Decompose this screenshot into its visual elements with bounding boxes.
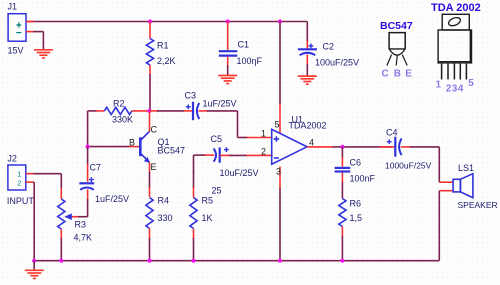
wire R2 left vertical bbox=[87, 111, 89, 147]
wire top rail bbox=[26, 21, 307, 23]
wire C5 left bbox=[204, 154, 214, 156]
svg-text:C2: C2 bbox=[323, 42, 335, 52]
wire pin4 output bbox=[307, 146, 333, 148]
svg-text:4: 4 bbox=[309, 137, 314, 147]
svg-text:BC547: BC547 bbox=[380, 20, 413, 32]
capacitor C1 bbox=[227, 22, 229, 51]
resistor R4 bbox=[146, 198, 153, 229]
node junction R1-top bbox=[148, 19, 152, 23]
svg-text:100ηF: 100ηF bbox=[237, 56, 263, 66]
svg-text:1uF/25V: 1uF/25V bbox=[95, 194, 129, 204]
BC547 package body bbox=[389, 33, 405, 49]
resistor R6 bbox=[339, 199, 346, 227]
svg-text:J2: J2 bbox=[7, 154, 17, 164]
svg-text:B: B bbox=[394, 68, 401, 79]
wire collector to C3 bbox=[150, 110, 159, 112]
capacitor C6 bbox=[341, 147, 343, 158]
svg-text:SPEAKER: SPEAKER bbox=[458, 200, 498, 210]
svg-text:R3: R3 bbox=[75, 220, 87, 230]
ground (C2) bbox=[298, 75, 317, 77]
TDA2002 tab bbox=[442, 14, 469, 30]
node junction R4-rail bbox=[147, 259, 151, 263]
wire base node to C7 bbox=[87, 147, 89, 165]
svg-text:1: 1 bbox=[17, 170, 21, 179]
svg-text:100nF: 100nF bbox=[350, 174, 376, 184]
svg-text:R6: R6 bbox=[350, 199, 362, 209]
wire base bbox=[88, 146, 130, 148]
node junction R3-rail bbox=[59, 259, 63, 263]
wire collector up bbox=[149, 112, 151, 132]
svg-text:C: C bbox=[151, 125, 158, 135]
node junction pin3-rail bbox=[278, 259, 282, 263]
node junction ground-rail bbox=[32, 259, 36, 263]
wire C4 to speaker bbox=[401, 146, 411, 148]
svg-text:E: E bbox=[151, 162, 157, 172]
svg-text:C: C bbox=[382, 68, 389, 79]
svg-text:R1: R1 bbox=[157, 41, 169, 51]
ground (J1) bbox=[34, 49, 53, 51]
svg-text:LS1: LS1 bbox=[458, 163, 474, 173]
wire J1 plus pin bbox=[26, 21, 34, 23]
svg-text:4,7K: 4,7K bbox=[74, 233, 93, 243]
svg-text:C5: C5 bbox=[211, 134, 223, 144]
svg-text:C7: C7 bbox=[90, 163, 102, 173]
wire C2 branch bbox=[306, 22, 308, 43]
svg-text:TDA 2002: TDA 2002 bbox=[431, 2, 481, 14]
svg-text:C6: C6 bbox=[350, 158, 362, 168]
wire speaker bottom pin bbox=[439, 190, 453, 192]
BC547 legs bbox=[387, 55, 392, 66]
ground (bottom) bbox=[33, 261, 35, 271]
svg-text:15V: 15V bbox=[8, 46, 24, 56]
node junction R6-rail bbox=[340, 259, 344, 263]
svg-text:330K: 330K bbox=[112, 115, 133, 125]
node junction pin5-branch bbox=[278, 19, 282, 23]
resistor R5 bbox=[190, 198, 197, 229]
capacitor C5 bbox=[219, 147, 221, 162]
svg-text:B: B bbox=[129, 137, 135, 147]
svg-text:25: 25 bbox=[212, 186, 222, 196]
wire J2 pin1 bbox=[26, 173, 34, 175]
svg-text:5: 5 bbox=[468, 78, 474, 89]
connector J2 bbox=[8, 165, 26, 190]
capacitor C2 bbox=[306, 41, 308, 49]
svg-text:C1: C1 bbox=[238, 40, 250, 50]
svg-text:R2: R2 bbox=[113, 99, 125, 109]
svg-text:INPUT: INPUT bbox=[7, 196, 35, 206]
svg-text:E: E bbox=[405, 68, 412, 79]
svg-text:1uF/25V: 1uF/25V bbox=[203, 99, 237, 109]
svg-text:330: 330 bbox=[158, 213, 173, 223]
svg-text:2,2K: 2,2K bbox=[157, 56, 176, 66]
wire bottom rail bbox=[34, 260, 439, 262]
potentiometer R3 bbox=[58, 199, 65, 229]
resistor R2 bbox=[88, 110, 97, 112]
svg-text:100uF/25V: 100uF/25V bbox=[315, 58, 359, 68]
svg-text:2: 2 bbox=[261, 147, 266, 157]
svg-text:1000uF/25V: 1000uF/25V bbox=[385, 161, 432, 171]
wire C5 right to pin2 bbox=[220, 154, 230, 156]
svg-text:1: 1 bbox=[261, 129, 266, 139]
capacitor C7 bbox=[79, 182, 94, 184]
svg-text:3: 3 bbox=[276, 167, 281, 177]
wire J1 minus pin bbox=[26, 31, 34, 33]
svg-text:R5: R5 bbox=[202, 196, 214, 206]
svg-text:4: 4 bbox=[458, 84, 464, 95]
wire speaker top pin bbox=[439, 181, 453, 183]
wire J2 pin2 bbox=[26, 181, 34, 183]
transistor Q1 bbox=[139, 137, 142, 156]
speaker LS1 bbox=[453, 179, 460, 192]
capacitor C4 bbox=[394, 137, 396, 157]
svg-text:TDA2002: TDA2002 bbox=[289, 121, 327, 131]
svg-text:2: 2 bbox=[17, 179, 21, 188]
TDA2002 legs bbox=[441, 64, 443, 80]
connector J1 bbox=[8, 14, 26, 42]
wire R3 bottom bbox=[60, 229, 62, 239]
wire pin3 bbox=[279, 167, 281, 190]
node junction C1-top bbox=[226, 19, 230, 23]
svg-text:1: 1 bbox=[436, 80, 442, 91]
wire C3 to pin1 bbox=[199, 110, 209, 112]
resistor R1 bbox=[149, 22, 151, 39]
svg-text:1,5: 1,5 bbox=[350, 213, 363, 223]
svg-text:J1: J1 bbox=[8, 2, 18, 12]
svg-text:C3: C3 bbox=[185, 91, 197, 101]
svg-text:10uF/25V: 10uF/25V bbox=[220, 168, 259, 178]
svg-text:R4: R4 bbox=[158, 196, 170, 206]
node junction collector bbox=[147, 109, 151, 113]
node junction C6 bbox=[340, 145, 344, 149]
svg-text:5: 5 bbox=[275, 120, 280, 130]
svg-text:BC547: BC547 bbox=[158, 146, 186, 156]
svg-text:C4: C4 bbox=[386, 128, 398, 138]
svg-text:1K: 1K bbox=[202, 213, 213, 223]
wire C7 bottom to wiper bbox=[87, 189, 89, 200]
op-amp U1 TDA2002 bbox=[272, 129, 307, 164]
ground (C1) bbox=[218, 75, 237, 77]
capacitor C3 bbox=[192, 102, 194, 120]
node junction base bbox=[86, 145, 90, 149]
TDA2002 body bbox=[438, 30, 471, 63]
node junction R5-rail bbox=[191, 259, 195, 263]
wire emitter down bbox=[149, 162, 151, 173]
wire pin5 bbox=[279, 22, 281, 105]
